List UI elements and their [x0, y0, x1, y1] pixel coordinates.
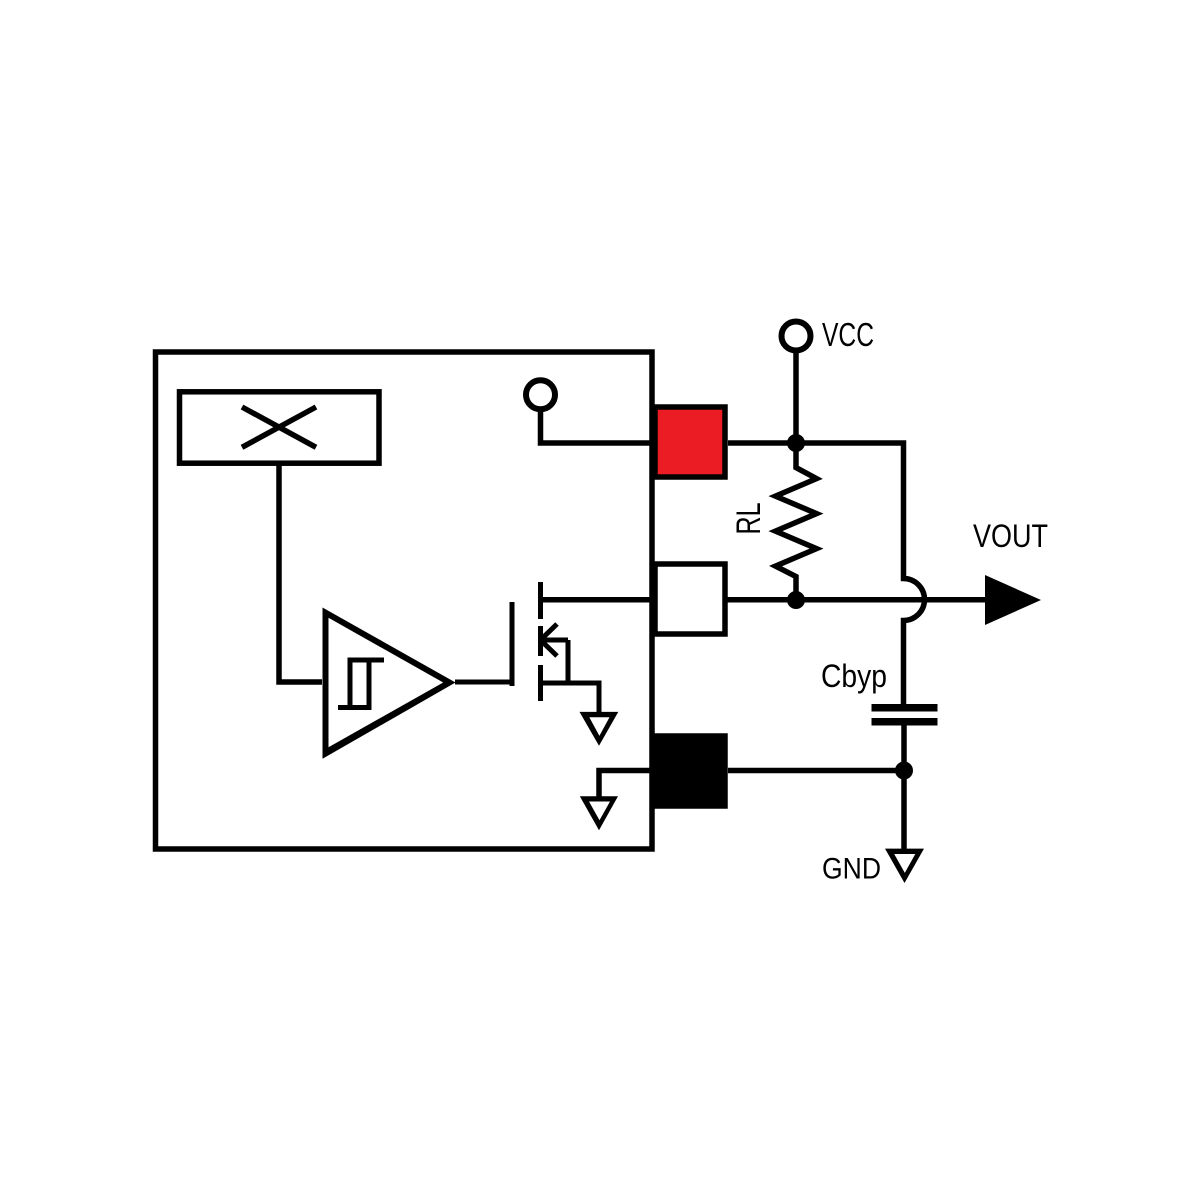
wire schmitt output to gate — [455, 680, 512, 685]
node junction RL/VOUT — [787, 591, 805, 609]
internal VCC terminal circle — [526, 380, 555, 409]
hysteresis symbol — [338, 658, 384, 711]
wire source — [541, 683, 600, 713]
ground (source) — [580, 712, 619, 746]
pad VOUT (white) — [655, 564, 725, 634]
wire GND rail (pad to Cbyp bottom) — [728, 768, 904, 774]
capacitor Cbyp — [872, 708, 938, 771]
hall element X1 (box with X) — [180, 392, 380, 463]
transistor Q1 body terminal with arrow — [541, 624, 568, 683]
svg-text:RL: RL — [730, 503, 768, 535]
IC package outline U1 — [156, 352, 653, 849]
ground (internal near GND pad) — [580, 796, 618, 830]
svg-text:VCC: VCC — [822, 316, 874, 353]
node junction GND/Cbyp — [895, 762, 913, 780]
pad GND (black) — [655, 736, 725, 806]
wire internal VCC circle to VCC pad — [541, 409, 653, 443]
resistor RL — [776, 443, 817, 600]
VCC terminal circle — [782, 322, 811, 351]
wire drain / VOUT line — [541, 597, 987, 603]
ground GND terminal — [885, 849, 924, 883]
wire GND pad to internal ground — [599, 771, 652, 798]
svg-text:VOUT: VOUT — [973, 518, 1048, 554]
transistor Q1 channel (dashed bar) — [538, 582, 543, 701]
VOUT arrow — [985, 575, 1041, 625]
wire right branch down with hop over VOUT — [728, 443, 925, 705]
wire VCC terminal down — [793, 351, 799, 444]
wire GND junction down — [901, 771, 907, 850]
pad VCC (red) — [655, 407, 725, 477]
transistor Q1 gate bar — [510, 602, 515, 686]
node junction VCC/RL — [787, 434, 805, 452]
wire hall element to schmitt input — [279, 463, 322, 682]
svg-text:GND: GND — [822, 853, 881, 886]
op-amp U2 (schmitt trigger buffer) — [323, 608, 456, 759]
svg-text:Cbyp: Cbyp — [821, 658, 887, 694]
